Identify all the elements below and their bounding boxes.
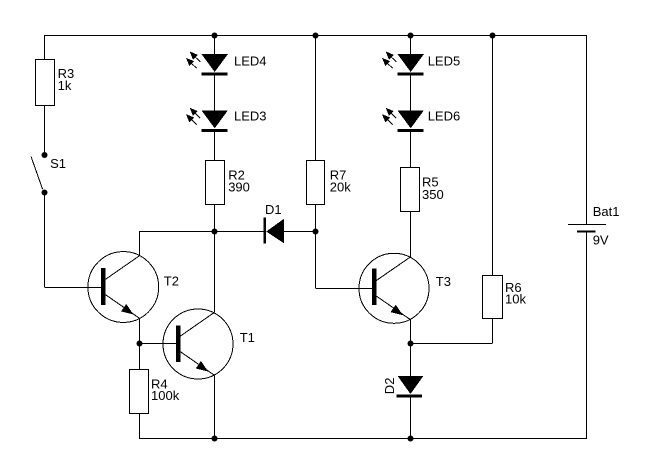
svg-text:LED4: LED4 [234, 53, 267, 68]
svg-text:D2: D2 [382, 378, 397, 395]
svg-text:LED3: LED3 [234, 109, 267, 124]
svg-text:T1: T1 [240, 330, 255, 345]
svg-text:S1: S1 [50, 156, 66, 171]
svg-text:100k: 100k [151, 388, 180, 403]
svg-text:LED6: LED6 [428, 109, 461, 124]
svg-text:D1: D1 [265, 202, 282, 217]
svg-text:1k: 1k [58, 78, 72, 93]
svg-text:Bat1: Bat1 [593, 204, 620, 219]
svg-text:350: 350 [422, 187, 444, 202]
svg-text:390: 390 [228, 180, 250, 195]
svg-text:20k: 20k [330, 180, 351, 195]
svg-text:10k: 10k [505, 291, 526, 306]
svg-text:LED5: LED5 [428, 53, 461, 68]
svg-text:T3: T3 [436, 274, 451, 289]
svg-text:T2: T2 [164, 274, 179, 289]
svg-text:9V: 9V [593, 232, 609, 247]
